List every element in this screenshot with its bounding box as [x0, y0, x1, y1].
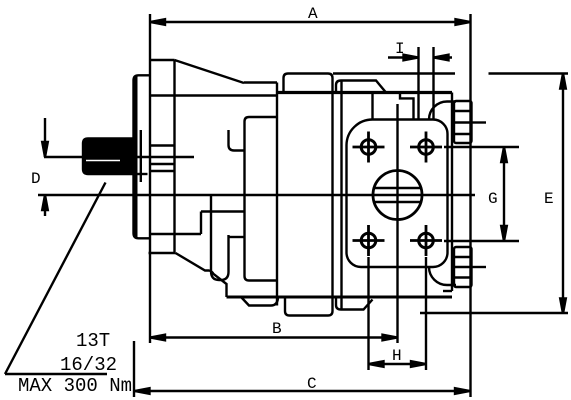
top boss 1: [284, 74, 333, 93]
fitting upper: [454, 101, 486, 143]
body bottom edge: [227, 296, 453, 299]
bolt hole top-right: [410, 132, 442, 163]
leader underline: [5, 373, 107, 375]
port bracket: [245, 117, 278, 281]
svg-text:13T: 13T: [76, 330, 110, 352]
bottom boss 2: [336, 297, 373, 310]
top boss 2: [336, 81, 386, 93]
bolt hole bottom-right: [410, 225, 442, 256]
bottom profile diagonal: [176, 253, 227, 297]
svg-text:I: I: [395, 40, 405, 58]
bottom boss 1: [285, 297, 333, 316]
port plate center vertical: [396, 104, 398, 343]
housing joint: [276, 83, 278, 306]
svg-text:B: B: [272, 320, 282, 338]
gear housing top edge: [277, 91, 452, 94]
leader line: [5, 183, 106, 375]
bottom tray: [242, 298, 279, 306]
pilot boss rear edge: [150, 163, 175, 165]
shaft: [83, 139, 132, 175]
dimension E: [333, 74, 568, 314]
cover corner vertical: [371, 93, 373, 120]
dimension C: [134, 341, 470, 397]
flange front face: [149, 14, 151, 343]
recess line: [201, 210, 245, 212]
port circle chord upper: [374, 187, 421, 189]
pilot boss bottom: [150, 170, 175, 172]
cover boss edge: [400, 93, 414, 120]
port boss arc bottom: [429, 267, 456, 285]
dimension H: [369, 257, 427, 370]
recess vertical: [200, 212, 202, 235]
port boss arc top: [429, 102, 456, 120]
flange rear face: [173, 60, 175, 253]
flange bottom edge: [149, 252, 176, 254]
dimension D: [42, 118, 48, 216]
port plate: [347, 120, 448, 268]
shaft shoulder line: [137, 173, 148, 175]
center port circle: [373, 171, 422, 220]
rear cover joint: [340, 81, 342, 310]
svg-text:E: E: [544, 190, 554, 208]
front housing top edge: [151, 94, 277, 96]
bolt hole top-left: [353, 132, 385, 163]
svg-text:MAX 300 Nm: MAX 300 Nm: [18, 375, 132, 397]
bracket stub: [229, 236, 245, 238]
main centerline: [38, 194, 475, 196]
svg-text:D: D: [31, 170, 41, 188]
bolt hole bottom-left: [353, 225, 385, 256]
flange top edge: [150, 59, 175, 61]
cone diagonal top: [175, 60, 245, 83]
drain boss: [211, 195, 229, 280]
bore line: [229, 130, 245, 151]
rear cover bottom edge: [443, 290, 452, 292]
flange plate: [134, 75, 150, 238]
shaft centerline: [44, 156, 194, 158]
svg-text:G: G: [488, 190, 498, 208]
rear joint line: [331, 93, 333, 298]
dimension I: [388, 47, 452, 120]
mid step edge: [244, 81, 277, 83]
svg-text:C: C: [307, 375, 317, 393]
pilot boss top: [150, 144, 175, 146]
svg-text:A: A: [308, 5, 318, 23]
fitting lower: [454, 247, 486, 287]
recess bottom line: [150, 233, 201, 235]
dimension B: [150, 335, 398, 341]
flange hub line: [140, 130, 142, 182]
extension line right A/C: [469, 14, 471, 397]
dimension G: [444, 147, 519, 241]
shaft keyway line: [86, 160, 120, 162]
rear cover face: [451, 93, 453, 292]
svg-text:H: H: [392, 347, 402, 365]
port circle chord lower: [374, 201, 421, 203]
flange plate edge: [135, 77, 138, 238]
dimension A: [150, 19, 471, 25]
svg-text:16/32: 16/32: [60, 354, 117, 376]
